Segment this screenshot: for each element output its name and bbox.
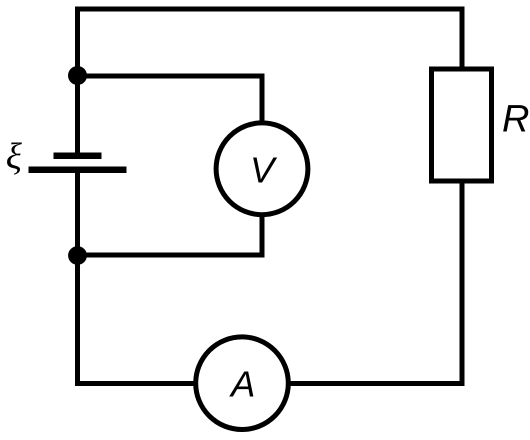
svg-text:V: V xyxy=(250,150,278,191)
svg-text:R: R xyxy=(502,98,529,140)
svg-text:A: A xyxy=(229,363,255,404)
svg-text:ξ: ξ xyxy=(6,136,23,177)
